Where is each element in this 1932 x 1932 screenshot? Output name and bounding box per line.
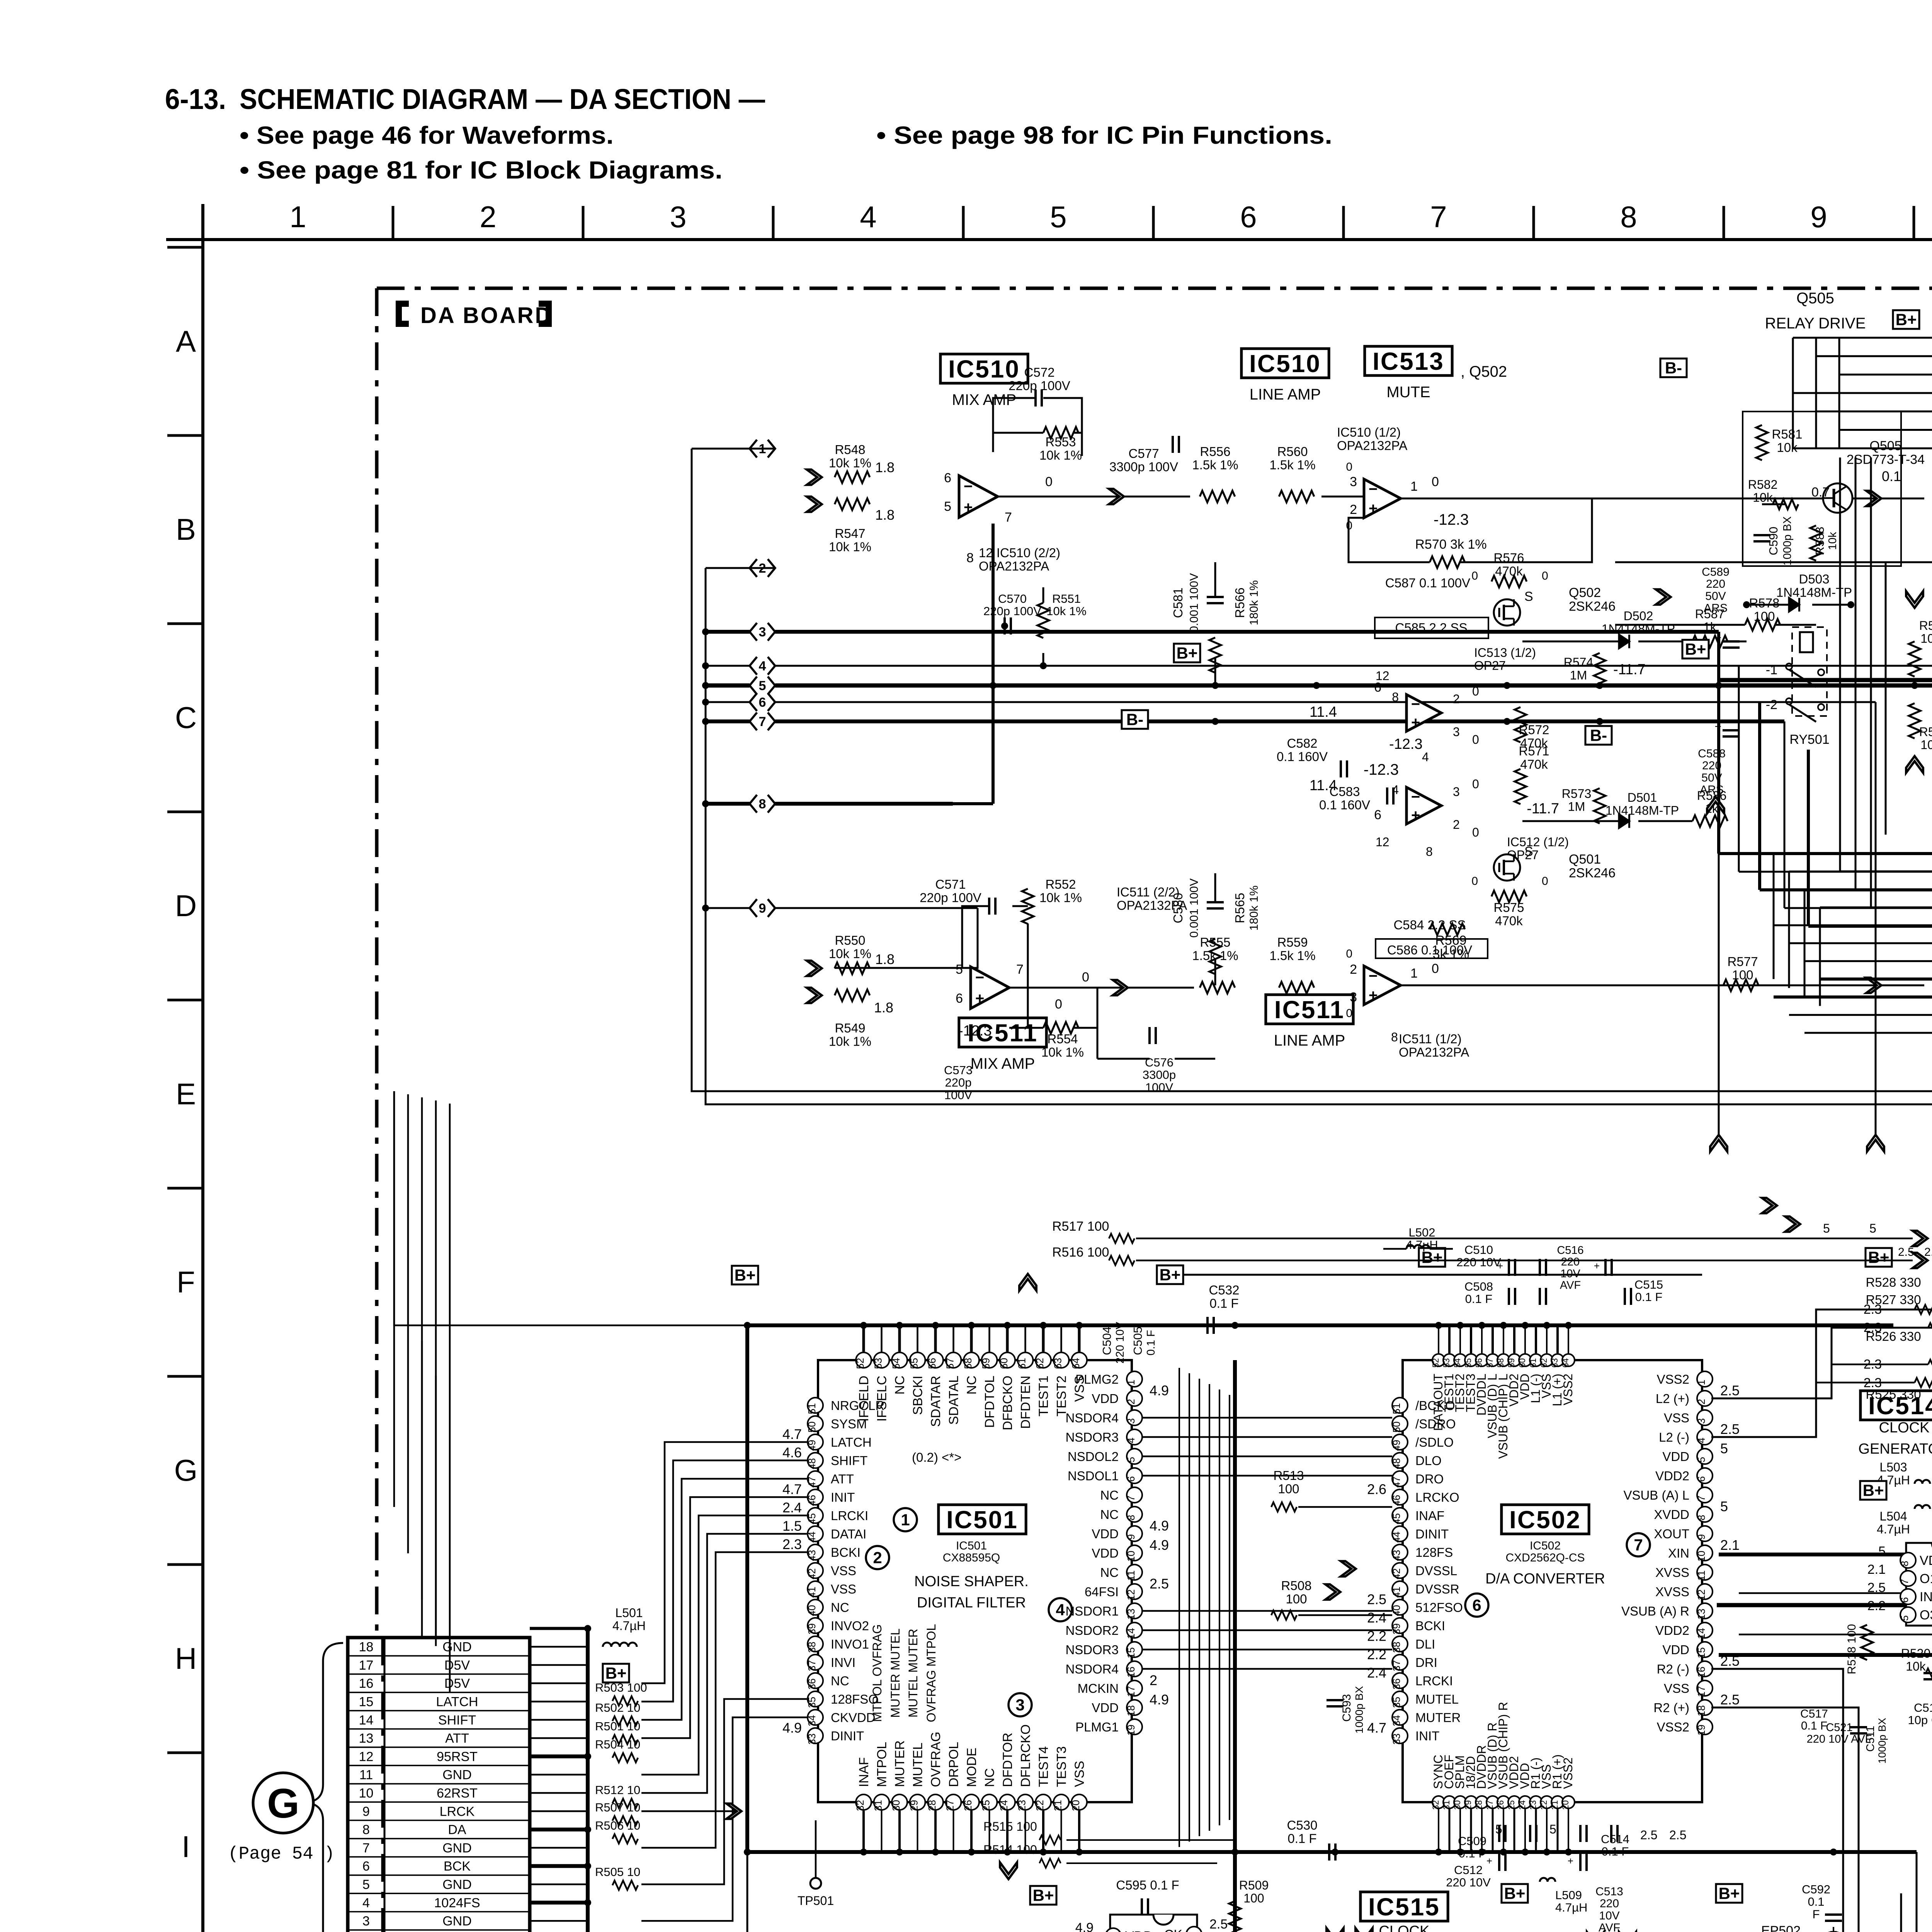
svg-text:VSS: VSS xyxy=(1664,1411,1689,1425)
svg-text:C576: C576 xyxy=(1145,1056,1173,1069)
svg-text:MUTEL: MUTEL xyxy=(911,1743,925,1787)
svg-text:2: 2 xyxy=(480,200,496,234)
svg-text:220p 100V: 220p 100V xyxy=(983,604,1041,618)
svg-text:60: 60 xyxy=(998,1358,1010,1369)
svg-text:SDATAR: SDATAR xyxy=(929,1376,943,1427)
svg-text:C530: C530 xyxy=(1287,1818,1318,1832)
svg-text:44: 44 xyxy=(1391,1532,1402,1543)
svg-text:MODE: MODE xyxy=(964,1748,979,1787)
svg-text:C515: C515 xyxy=(1634,1278,1663,1291)
svg-text:DINIT: DINIT xyxy=(831,1729,864,1743)
svg-text:LATCH: LATCH xyxy=(436,1694,478,1709)
svg-text:R578: R578 xyxy=(1749,596,1780,610)
svg-text:R2 (-): R2 (-) xyxy=(1657,1662,1689,1676)
svg-text:AVF: AVF xyxy=(1599,1922,1620,1932)
svg-text:14: 14 xyxy=(359,1713,374,1728)
svg-text:+: + xyxy=(1369,500,1378,517)
svg-text:3300p: 3300p xyxy=(1143,1068,1176,1082)
svg-text:Q502: Q502 xyxy=(1569,585,1601,600)
svg-text:DLI: DLI xyxy=(1415,1637,1435,1651)
svg-text:1N4148M-TP: 1N4148M-TP xyxy=(1605,803,1679,817)
svg-text:NC: NC xyxy=(831,1674,849,1688)
svg-text:VDD2: VDD2 xyxy=(1655,1469,1689,1483)
svg-text:NSDOR2: NSDOR2 xyxy=(1065,1623,1119,1638)
svg-text:4: 4 xyxy=(1392,783,1399,797)
svg-text:C512: C512 xyxy=(1454,1863,1483,1877)
svg-text:R503 100: R503 100 xyxy=(595,1681,647,1694)
svg-text:4.7: 4.7 xyxy=(1367,1720,1386,1736)
svg-text:2.4: 2.4 xyxy=(1367,1610,1386,1626)
svg-text:3300p 100V: 3300p 100V xyxy=(1109,459,1178,474)
svg-text:DA: DA xyxy=(448,1823,466,1837)
svg-text:C508: C508 xyxy=(1464,1280,1493,1293)
svg-text:C519: C519 xyxy=(1914,1701,1932,1714)
svg-text:7: 7 xyxy=(1016,962,1024,977)
svg-text:C517: C517 xyxy=(1800,1708,1828,1720)
svg-text:B+: B+ xyxy=(1719,1884,1740,1903)
svg-text:1: 1 xyxy=(1125,1379,1137,1385)
svg-text:D5V: D5V xyxy=(444,1658,470,1673)
svg-text:10k 1%: 10k 1% xyxy=(829,539,871,554)
svg-text:0.7: 0.7 xyxy=(1811,485,1830,500)
svg-text:1: 1 xyxy=(1410,479,1418,494)
svg-text:IC513: IC513 xyxy=(1372,347,1444,375)
svg-text:LINE AMP: LINE AMP xyxy=(1274,1032,1345,1049)
svg-text:+: + xyxy=(975,990,984,1007)
svg-text:1024FS: 1024FS xyxy=(434,1896,480,1910)
svg-text:MCKIN: MCKIN xyxy=(1078,1681,1119,1696)
svg-text:L509: L509 xyxy=(1555,1888,1582,1902)
svg-text:0: 0 xyxy=(1055,997,1062,1012)
svg-text:GENERATOR: GENERATOR xyxy=(1858,1441,1932,1457)
svg-text:50V: 50V xyxy=(1705,590,1726,602)
svg-text:220 10V: 220 10V xyxy=(1446,1876,1491,1889)
svg-text:LRCKI: LRCKI xyxy=(831,1509,868,1523)
svg-text:R552: R552 xyxy=(1046,877,1076,891)
svg-text:6: 6 xyxy=(759,695,766,710)
svg-text:LRCK: LRCK xyxy=(440,1804,475,1819)
svg-text:4: 4 xyxy=(860,200,876,234)
svg-text:D503: D503 xyxy=(1799,572,1830,586)
svg-text:IC513 (1/2): IC513 (1/2) xyxy=(1474,646,1536,660)
svg-text:0: 0 xyxy=(1542,875,1548,888)
svg-text:B+: B+ xyxy=(1868,1248,1889,1267)
svg-text:11: 11 xyxy=(359,1768,373,1782)
svg-text:−: − xyxy=(1411,788,1420,805)
svg-text:R576: R576 xyxy=(1494,551,1524,565)
svg-text:3: 3 xyxy=(1696,1418,1707,1423)
svg-text:18: 18 xyxy=(1125,1705,1137,1716)
svg-text:IFSELD: IFSELD xyxy=(857,1376,871,1422)
svg-text:220p 100V: 220p 100V xyxy=(920,890,981,905)
svg-text:5: 5 xyxy=(1899,1615,1910,1621)
svg-text:4.7µH: 4.7µH xyxy=(1877,1522,1910,1536)
svg-text:NC: NC xyxy=(983,1768,997,1787)
svg-text:R577: R577 xyxy=(1728,954,1758,969)
svg-text:10k 1%: 10k 1% xyxy=(1039,448,1082,462)
svg-text:NC: NC xyxy=(1100,1565,1119,1580)
svg-text:NC: NC xyxy=(831,1600,849,1615)
svg-text:, Q502: , Q502 xyxy=(1461,363,1507,380)
svg-text:7: 7 xyxy=(1005,510,1012,525)
svg-text:GND: GND xyxy=(442,1877,472,1892)
svg-text:VSS2: VSS2 xyxy=(1561,1757,1575,1789)
svg-text:RELAY DRIVE: RELAY DRIVE xyxy=(1765,315,1866,332)
svg-text:INVO1: INVO1 xyxy=(831,1637,869,1651)
svg-text:30: 30 xyxy=(1452,1800,1462,1810)
svg-text:B-: B- xyxy=(1126,711,1143,729)
svg-text:100: 100 xyxy=(1243,1891,1264,1905)
svg-text:3: 3 xyxy=(1015,1696,1024,1714)
svg-text:C570: C570 xyxy=(998,592,1027,605)
svg-text:+: + xyxy=(1568,1855,1573,1867)
svg-text:31: 31 xyxy=(872,1800,884,1811)
svg-text:+: + xyxy=(1497,1260,1503,1272)
svg-text:IC502: IC502 xyxy=(1509,1506,1581,1534)
svg-text:23: 23 xyxy=(1528,1800,1538,1810)
svg-text:4.7µH: 4.7µH xyxy=(1555,1901,1587,1914)
svg-text:NSDOR3: NSDOR3 xyxy=(1065,1643,1119,1657)
svg-text:C: C xyxy=(175,701,197,735)
svg-text:D5V: D5V xyxy=(444,1676,470,1691)
svg-text:21: 21 xyxy=(1052,1800,1064,1811)
svg-text:+: + xyxy=(1594,1260,1600,1272)
svg-text:28: 28 xyxy=(926,1800,938,1811)
svg-text:C511: C511 xyxy=(1864,1726,1877,1752)
svg-text:60: 60 xyxy=(1517,1358,1527,1367)
svg-text:XVSS: XVSS xyxy=(1655,1585,1689,1599)
svg-text:25: 25 xyxy=(1507,1800,1516,1810)
svg-text:51: 51 xyxy=(1391,1403,1402,1414)
svg-text:DA BOARD: DA BOARD xyxy=(420,303,553,328)
svg-text:C592: C592 xyxy=(1802,1883,1830,1896)
svg-text:12: 12 xyxy=(1376,835,1389,849)
svg-text:MUTER MUTEL: MUTER MUTEL xyxy=(888,1628,902,1718)
svg-text:/SDLO: /SDLO xyxy=(1415,1435,1454,1449)
svg-text:6: 6 xyxy=(1472,1596,1481,1614)
svg-text:29: 29 xyxy=(1463,1800,1473,1810)
svg-text:42: 42 xyxy=(806,1568,818,1580)
svg-text:50: 50 xyxy=(806,1422,818,1433)
svg-text:39: 39 xyxy=(1391,1623,1402,1634)
svg-text:F: F xyxy=(1813,1907,1820,1921)
svg-text:VDD: VDD xyxy=(1920,1553,1932,1568)
svg-text:B+: B+ xyxy=(735,1266,756,1284)
svg-text:470k: 470k xyxy=(1495,913,1523,928)
svg-text:C521: C521 xyxy=(1826,1721,1852,1734)
svg-text:61: 61 xyxy=(1016,1358,1028,1369)
svg-text:10k 1%: 10k 1% xyxy=(829,1034,871,1048)
svg-text:R573: R573 xyxy=(1562,787,1592,801)
svg-text:8: 8 xyxy=(362,1823,370,1837)
svg-text:10k 1%: 10k 1% xyxy=(1039,890,1082,905)
svg-text:2.5: 2.5 xyxy=(1898,1246,1914,1259)
svg-text:13: 13 xyxy=(359,1731,374,1746)
svg-text:SHIFT: SHIFT xyxy=(438,1713,476,1728)
svg-text:IC515: IC515 xyxy=(1368,1893,1440,1921)
svg-text:R501 10: R501 10 xyxy=(595,1719,640,1733)
svg-text:27: 27 xyxy=(1485,1800,1495,1810)
svg-text:L2 (-): L2 (-) xyxy=(1659,1430,1689,1444)
svg-text:LRCKI: LRCKI xyxy=(1415,1674,1453,1688)
svg-text:R574: R574 xyxy=(1564,655,1594,669)
svg-text:OVFRAG MTPOL: OVFRAG MTPOL xyxy=(924,1624,938,1722)
svg-text:180k 1%: 180k 1% xyxy=(1248,886,1260,931)
svg-text:C513: C513 xyxy=(1595,1885,1623,1898)
svg-text:ARS: ARS xyxy=(1700,784,1724,796)
svg-text:23: 23 xyxy=(1016,1800,1028,1811)
svg-text:0.1: 0.1 xyxy=(1882,468,1901,484)
svg-text:59: 59 xyxy=(980,1358,992,1369)
svg-text:64: 64 xyxy=(1070,1358,1082,1369)
svg-text:C595 0.1 F: C595 0.1 F xyxy=(1116,1878,1179,1892)
svg-text:3: 3 xyxy=(1453,785,1460,799)
svg-text:L501: L501 xyxy=(615,1606,643,1620)
svg-text:35: 35 xyxy=(806,1697,818,1708)
svg-text:8: 8 xyxy=(966,551,974,565)
svg-text:35: 35 xyxy=(1391,1697,1402,1708)
svg-text:R514 100: R514 100 xyxy=(983,1843,1037,1857)
svg-text:4: 4 xyxy=(362,1896,370,1910)
svg-text:LINE AMP: LINE AMP xyxy=(1250,386,1321,403)
svg-text:1.8: 1.8 xyxy=(874,1000,893,1015)
svg-text:• See page 81 for IC Block Dia: • See page 81 for IC Block Diagrams. xyxy=(240,156,723,184)
svg-text:470k: 470k xyxy=(1495,564,1523,578)
svg-text:R504 10: R504 10 xyxy=(595,1738,640,1751)
svg-text:43: 43 xyxy=(1391,1550,1402,1561)
svg-text:CXD2562Q-CS: CXD2562Q-CS xyxy=(1505,1551,1585,1564)
svg-text:220p 100V: 220p 100V xyxy=(1009,378,1070,393)
svg-text:4.9: 4.9 xyxy=(782,1720,802,1736)
svg-text:27: 27 xyxy=(944,1800,956,1811)
svg-text:CKVDD: CKVDD xyxy=(831,1711,876,1725)
svg-text:1.5k 1%: 1.5k 1% xyxy=(1269,457,1315,472)
svg-text:DINIT: DINIT xyxy=(1415,1527,1449,1541)
svg-text:B+: B+ xyxy=(1160,1266,1181,1284)
svg-text:17: 17 xyxy=(1696,1686,1707,1697)
svg-text:48: 48 xyxy=(1391,1458,1402,1469)
svg-text:55: 55 xyxy=(1463,1358,1473,1367)
svg-text:5: 5 xyxy=(944,499,951,514)
svg-text:D: D xyxy=(175,889,197,923)
svg-text:B-: B- xyxy=(1590,726,1607,745)
svg-text:O1: O1 xyxy=(1920,1571,1932,1586)
svg-text:45: 45 xyxy=(806,1513,818,1524)
svg-text:13: 13 xyxy=(1125,1609,1137,1620)
svg-text:180k 1%: 180k 1% xyxy=(1248,580,1260,626)
svg-text:8: 8 xyxy=(1392,690,1399,704)
svg-text:12: 12 xyxy=(1125,1589,1137,1600)
svg-text:58: 58 xyxy=(962,1358,974,1369)
svg-text:4.9: 4.9 xyxy=(1150,1518,1169,1534)
svg-text:DFBCKO: DFBCKO xyxy=(1000,1376,1015,1430)
svg-text:3: 3 xyxy=(362,1914,370,1929)
svg-text:GND: GND xyxy=(442,1841,472,1855)
svg-text:4.9: 4.9 xyxy=(1150,1537,1169,1553)
svg-text:11: 11 xyxy=(1125,1570,1137,1581)
svg-text:4.9: 4.9 xyxy=(1150,1692,1169,1708)
svg-text:LATCH: LATCH xyxy=(831,1435,872,1449)
svg-text:GND: GND xyxy=(442,1914,472,1929)
svg-text:49: 49 xyxy=(806,1440,818,1451)
svg-text:38: 38 xyxy=(806,1642,818,1653)
svg-text:IC511: IC511 xyxy=(1274,996,1345,1024)
svg-text:100: 100 xyxy=(1286,1592,1307,1606)
svg-text:30: 30 xyxy=(890,1800,902,1811)
svg-text:2.5: 2.5 xyxy=(1720,1383,1740,1398)
svg-text:10: 10 xyxy=(1125,1551,1137,1562)
svg-text:R572: R572 xyxy=(1519,723,1549,737)
svg-text:R517 100: R517 100 xyxy=(1052,1219,1109,1234)
svg-text:10: 10 xyxy=(1696,1551,1707,1562)
svg-text:26: 26 xyxy=(962,1800,974,1811)
svg-text:1000p BX: 1000p BX xyxy=(1353,1686,1365,1733)
svg-text:22: 22 xyxy=(1034,1800,1046,1811)
svg-text:7: 7 xyxy=(1899,1579,1910,1584)
svg-text:VDD: VDD xyxy=(1092,1701,1119,1715)
svg-text:DRO: DRO xyxy=(1415,1472,1444,1486)
svg-text:8: 8 xyxy=(759,797,766,811)
svg-text:0.1 F: 0.1 F xyxy=(1801,1719,1827,1732)
svg-text:57: 57 xyxy=(944,1358,956,1369)
svg-text:6: 6 xyxy=(1125,1476,1137,1481)
svg-text:2.4: 2.4 xyxy=(782,1500,802,1515)
svg-text:-2: -2 xyxy=(1766,697,1777,712)
svg-text:IC501: IC501 xyxy=(956,1539,987,1552)
svg-text:−: − xyxy=(1411,696,1420,713)
svg-text:R555: R555 xyxy=(1200,935,1231,949)
svg-text:B+: B+ xyxy=(1685,640,1706,658)
svg-text:R509: R509 xyxy=(1239,1878,1269,1892)
svg-text:CK: CK xyxy=(1164,1927,1183,1932)
svg-text:C589: C589 xyxy=(1702,566,1730,578)
svg-text:53: 53 xyxy=(872,1358,884,1369)
svg-text:B: B xyxy=(176,512,196,546)
svg-text:INIT: INIT xyxy=(831,1490,855,1505)
svg-text:0: 0 xyxy=(1472,684,1479,698)
svg-text:(Page 54 ): (Page 54 ) xyxy=(228,1844,335,1864)
svg-text:NSDOL2: NSDOL2 xyxy=(1068,1449,1119,1464)
svg-text:C593: C593 xyxy=(1340,1694,1353,1722)
svg-text:2: 2 xyxy=(1150,1672,1157,1688)
svg-text:XVSS: XVSS xyxy=(1655,1565,1689,1580)
svg-text:MIX AMP: MIX AMP xyxy=(952,391,1017,408)
svg-text:XOUT: XOUT xyxy=(1654,1527,1689,1541)
svg-text:2.5: 2.5 xyxy=(1720,1421,1740,1437)
svg-text:C577: C577 xyxy=(1129,446,1159,461)
svg-text:1: 1 xyxy=(1410,966,1418,981)
svg-text:32: 32 xyxy=(1431,1800,1440,1810)
svg-text:29: 29 xyxy=(908,1800,920,1811)
svg-text:0.1 160V: 0.1 160V xyxy=(1277,749,1328,764)
svg-text:41: 41 xyxy=(806,1587,818,1598)
svg-text:2: 2 xyxy=(1696,1399,1707,1404)
svg-text:H: H xyxy=(175,1641,197,1675)
svg-text:1: 1 xyxy=(901,1511,910,1529)
svg-text:NC: NC xyxy=(1100,1507,1119,1522)
svg-text:9: 9 xyxy=(1125,1534,1137,1539)
svg-text:CLOCK: CLOCK xyxy=(1879,1420,1930,1436)
svg-text:NSDOR1: NSDOR1 xyxy=(1065,1604,1119,1618)
svg-text:7: 7 xyxy=(1430,200,1447,234)
svg-text:58: 58 xyxy=(1496,1358,1505,1367)
svg-text:56: 56 xyxy=(1474,1358,1484,1367)
svg-text:0: 0 xyxy=(1472,777,1479,791)
svg-text:INIT: INIT xyxy=(1415,1729,1439,1743)
svg-text:PLMG1: PLMG1 xyxy=(1075,1720,1119,1734)
svg-text:R528 330: R528 330 xyxy=(1866,1275,1921,1289)
svg-text:0.1 F: 0.1 F xyxy=(1602,1845,1629,1858)
svg-text:25: 25 xyxy=(980,1800,992,1811)
svg-text:2.6: 2.6 xyxy=(1367,1481,1386,1497)
svg-text:ARS: ARS xyxy=(1704,602,1728,615)
svg-text:0.1 F: 0.1 F xyxy=(1287,1831,1316,1845)
svg-text:-1: -1 xyxy=(1766,663,1777,677)
svg-text:CLOCK: CLOCK xyxy=(1379,1923,1430,1932)
svg-text:100: 100 xyxy=(1278,1481,1299,1496)
svg-text:0: 0 xyxy=(1472,825,1479,839)
svg-text:S: S xyxy=(1524,844,1533,859)
svg-text:2.5: 2.5 xyxy=(1924,1246,1932,1259)
svg-text:12: 12 xyxy=(1696,1589,1707,1600)
svg-text:R556: R556 xyxy=(1200,444,1231,459)
svg-text:5: 5 xyxy=(759,679,766,693)
svg-text:OPA2132PA: OPA2132PA xyxy=(1337,438,1407,452)
svg-text:2.3: 2.3 xyxy=(782,1536,802,1552)
svg-text:R512 10: R512 10 xyxy=(595,1783,640,1797)
svg-text:VDD: VDD xyxy=(1092,1527,1119,1541)
svg-text:R565: R565 xyxy=(1233,893,1247,923)
svg-text:R560: R560 xyxy=(1277,444,1308,459)
svg-text:46: 46 xyxy=(1391,1495,1402,1506)
svg-text:B+: B+ xyxy=(605,1664,627,1682)
svg-text:1M: 1M xyxy=(1570,668,1587,682)
svg-text:2: 2 xyxy=(1125,1399,1137,1404)
svg-text:10k 1%: 10k 1% xyxy=(829,456,871,470)
svg-text:24: 24 xyxy=(1517,1800,1527,1810)
svg-text:0.1 F: 0.1 F xyxy=(1635,1290,1663,1304)
svg-text:2.2: 2.2 xyxy=(1867,1599,1886,1613)
svg-text:15: 15 xyxy=(1696,1647,1707,1658)
svg-text:2.5: 2.5 xyxy=(1640,1828,1657,1842)
svg-text:64FSI: 64FSI xyxy=(1085,1585,1119,1599)
svg-text:51: 51 xyxy=(806,1403,818,1414)
svg-text:6: 6 xyxy=(1240,200,1257,234)
svg-text:4.7µH: 4.7µH xyxy=(612,1619,646,1633)
svg-text:R571: R571 xyxy=(1519,744,1549,758)
svg-text:IC501: IC501 xyxy=(946,1506,1018,1534)
svg-text:TEST1: TEST1 xyxy=(1036,1376,1051,1417)
svg-text:0: 0 xyxy=(1045,474,1053,489)
svg-text:36: 36 xyxy=(806,1679,818,1690)
svg-text:LRCKO: LRCKO xyxy=(1415,1490,1459,1505)
svg-text:3: 3 xyxy=(1350,474,1357,489)
svg-text:I: I xyxy=(182,1830,190,1864)
svg-text:3: 3 xyxy=(759,625,766,639)
svg-text:10V: 10V xyxy=(1599,1909,1619,1922)
svg-text:19: 19 xyxy=(1696,1725,1707,1736)
svg-text:MUTE: MUTE xyxy=(1386,384,1430,401)
svg-text:220 10V AVF: 220 10V AVF xyxy=(1807,1733,1872,1745)
svg-text:VSS2: VSS2 xyxy=(1657,1720,1689,1734)
svg-text:L2 (+): L2 (+) xyxy=(1656,1391,1689,1406)
svg-text:4: 4 xyxy=(1056,1601,1065,1619)
svg-text:3: 3 xyxy=(670,200,686,234)
svg-text:36: 36 xyxy=(1391,1679,1402,1690)
svg-text:220: 220 xyxy=(1600,1897,1619,1910)
svg-text:470k: 470k xyxy=(1520,757,1548,771)
svg-text:54: 54 xyxy=(890,1358,902,1369)
